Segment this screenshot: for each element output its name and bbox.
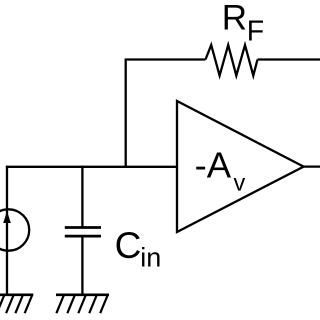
label -Av: op-amp gain	[195, 144, 246, 195]
wire: capacitor bottom lead to ground	[81, 236, 83, 295]
wire: capacitor top lead	[81, 166, 83, 228]
wire: input node horizontal (source/cap/feedback to op-amp input)	[6, 166, 177, 168]
svg-text:in: in	[140, 243, 161, 273]
label RF: resistor designator	[222, 0, 264, 48]
svg-text:-A: -A	[195, 144, 232, 185]
wire: op-amp output to right edge	[304, 165, 320, 167]
current source I1 arrowhead	[3, 211, 11, 223]
svg-text:C: C	[115, 225, 142, 266]
ground symbol under capacitor	[56, 295, 109, 313]
svg-text:F: F	[247, 16, 264, 48]
current source I1 circle	[0, 209, 29, 250]
resistor RF zigzag body	[206, 45, 258, 76]
ground symbol under current source	[0, 295, 33, 313]
svg-text:R: R	[222, 0, 247, 38]
capacitor Cin top plate	[65, 226, 101, 229]
capacitor Cin bottom plate	[65, 235, 101, 238]
op-amp U1 triangle	[177, 101, 304, 232]
wire: vertical feedback riser from input node to top rail	[125, 60, 127, 168]
label Cin: capacitor designator	[115, 225, 162, 273]
wire: resistor right lead to right edge	[258, 58, 320, 60]
wire: top rail from corner to resistor left lead	[125, 58, 206, 60]
svg-text:v: v	[234, 169, 246, 195]
wire: left vertical through current source down to ground	[6, 166, 8, 295]
